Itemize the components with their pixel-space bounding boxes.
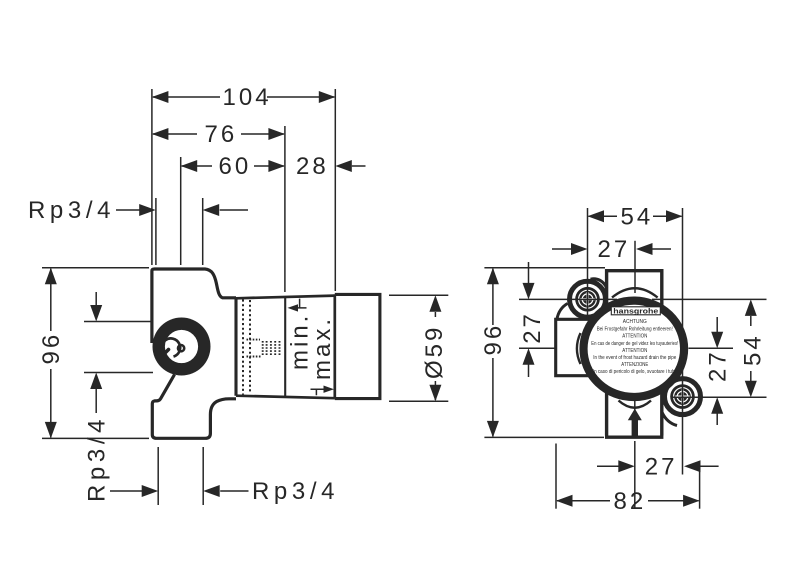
extension line right screw centerline vertical: [682, 208, 684, 475]
extension line 82 left: [555, 444, 557, 509]
min/max divider line: [284, 297, 286, 397]
extension line center bottom: [634, 441, 636, 509]
extension line 76/60 right: [284, 126, 286, 292]
svg-text:Rp3/4: Rp3/4: [84, 415, 111, 502]
extension line 96 bottom right view: [484, 436, 604, 438]
dotted thread lines in sleeve: [243, 300, 250, 395]
svg-text:ATTENZIONE: ATTENZIONE: [621, 362, 649, 368]
extension line 82 right: [699, 465, 701, 509]
svg-text:54: 54: [621, 203, 654, 230]
dimension 54 right vertical: [740, 299, 767, 397]
web fillet left plate to top lobe: [557, 304, 568, 320]
extension line 104 right: [334, 89, 336, 291]
flow direction centerline: [634, 401, 636, 410]
web fillet top plate to top lobe: [591, 279, 607, 288]
top-left lobe: [570, 281, 606, 317]
svg-text:27: 27: [705, 349, 732, 382]
screw top-left: [575, 287, 600, 312]
sleeve bottom edge: [236, 396, 335, 399]
web fillet bottom plate to bottom lobe: [662, 412, 677, 426]
cylinder flange line: [333, 294, 336, 398]
dimension 104: [152, 84, 335, 111]
svg-text:27: 27: [598, 236, 631, 263]
svg-text:ACHTUNG: ACHTUNG: [623, 319, 647, 325]
svg-text:82: 82: [614, 488, 647, 515]
dimension 82: [556, 488, 700, 515]
label Rp3/4 top port: [28, 197, 248, 224]
extension line left screw centerline vertical: [587, 208, 589, 320]
extension line top port right wall: [202, 198, 204, 265]
max label: [309, 316, 336, 395]
extension line 104/76 left: [151, 89, 153, 265]
extension line body centerline top: [634, 241, 636, 293]
bottom-right lobe: [665, 379, 701, 415]
screw bottom-right: [670, 384, 695, 409]
svg-text:96: 96: [38, 332, 65, 365]
extension line top port left wall: [155, 198, 157, 265]
sleeve face (flange): [234, 298, 237, 395]
svg-text:ATTENTION: ATTENTION: [622, 348, 647, 354]
extension line 60 left (top port centerline): [180, 157, 182, 265]
svg-text:In the event of frost hazard d: In the event of frost hazard drain the p…: [593, 355, 676, 361]
svg-text:Rp3/4: Rp3/4: [28, 197, 115, 224]
dimension 27 top: [552, 236, 671, 263]
svg-text:54: 54: [740, 333, 767, 366]
dimension 96 left: [38, 268, 149, 439]
dimension 54 top: [588, 203, 683, 230]
svg-text:In caso di pericolo di gelo, s: In caso di pericolo di gelo, svuotare i …: [593, 369, 677, 375]
svg-text:ATTENTION: ATTENTION: [622, 334, 647, 340]
extension line screws horizontal top: [519, 298, 767, 300]
LEFT VIEW: [28, 84, 448, 505]
bottom plate: [605, 391, 663, 437]
svg-text:104: 104: [223, 84, 272, 111]
dome bump bottom: [619, 401, 652, 408]
extension line 96 top right view: [484, 267, 605, 269]
central cover ring: [584, 301, 685, 397]
top plate: [607, 271, 662, 305]
svg-text:Bei Frostgefahr Rohrleitung en: Bei Frostgefahr Rohrleitung entleeren!: [597, 326, 673, 332]
svg-text:Rp3/4: Rp3/4: [252, 478, 339, 505]
dimension 28: [296, 153, 366, 180]
svg-text:En cas de danger de gel videz: En cas de danger de gel videz les tuyaut…: [591, 341, 678, 347]
dome bump left: [577, 333, 581, 364]
dimension 27 right vertical: [705, 317, 732, 425]
svg-text:hansgrohe: hansgrohe: [613, 309, 658, 316]
min label: [287, 299, 314, 370]
hansgrohe label box: [611, 307, 660, 316]
svg-text:96: 96: [480, 323, 507, 356]
dotted spindle outline: [247, 340, 280, 357]
dimension side port Rp3/4: [84, 292, 154, 502]
extension line center horizontal: [519, 347, 733, 349]
dimension 76: [152, 121, 285, 148]
svg-text:27: 27: [519, 311, 546, 344]
flow arrow: [628, 409, 642, 436]
svg-text:27: 27: [645, 454, 678, 481]
svg-text:60: 60: [219, 153, 252, 180]
end cylinder outline: [335, 294, 380, 398]
dimension 96 right view: [480, 268, 507, 438]
sleeve top edge: [236, 296, 335, 299]
warning text: [591, 319, 678, 375]
dimension 60: [181, 153, 285, 180]
left plate (side port): [556, 319, 601, 375]
dome bump top: [612, 288, 658, 297]
side port ring: [153, 318, 211, 376]
dimension diameter 59: [389, 295, 448, 401]
svg-text:max.: max.: [309, 316, 336, 380]
svg-text:76: 76: [205, 121, 238, 148]
body outline left (side view of valve housing): [152, 269, 236, 438]
bottom port extension lines: [157, 447, 159, 505]
RIGHT VIEW: [480, 203, 767, 515]
label Rp3/4 bottom port: [110, 478, 339, 505]
svg-text:Ø59: Ø59: [421, 325, 448, 379]
dimension 27 bottom: [597, 454, 719, 481]
svg-text:28: 28: [296, 153, 329, 180]
valve glyph inside side port: [160, 338, 185, 358]
dimension 27 left vertical: [519, 262, 546, 377]
extension line bottom screw horizontal: [671, 396, 767, 398]
